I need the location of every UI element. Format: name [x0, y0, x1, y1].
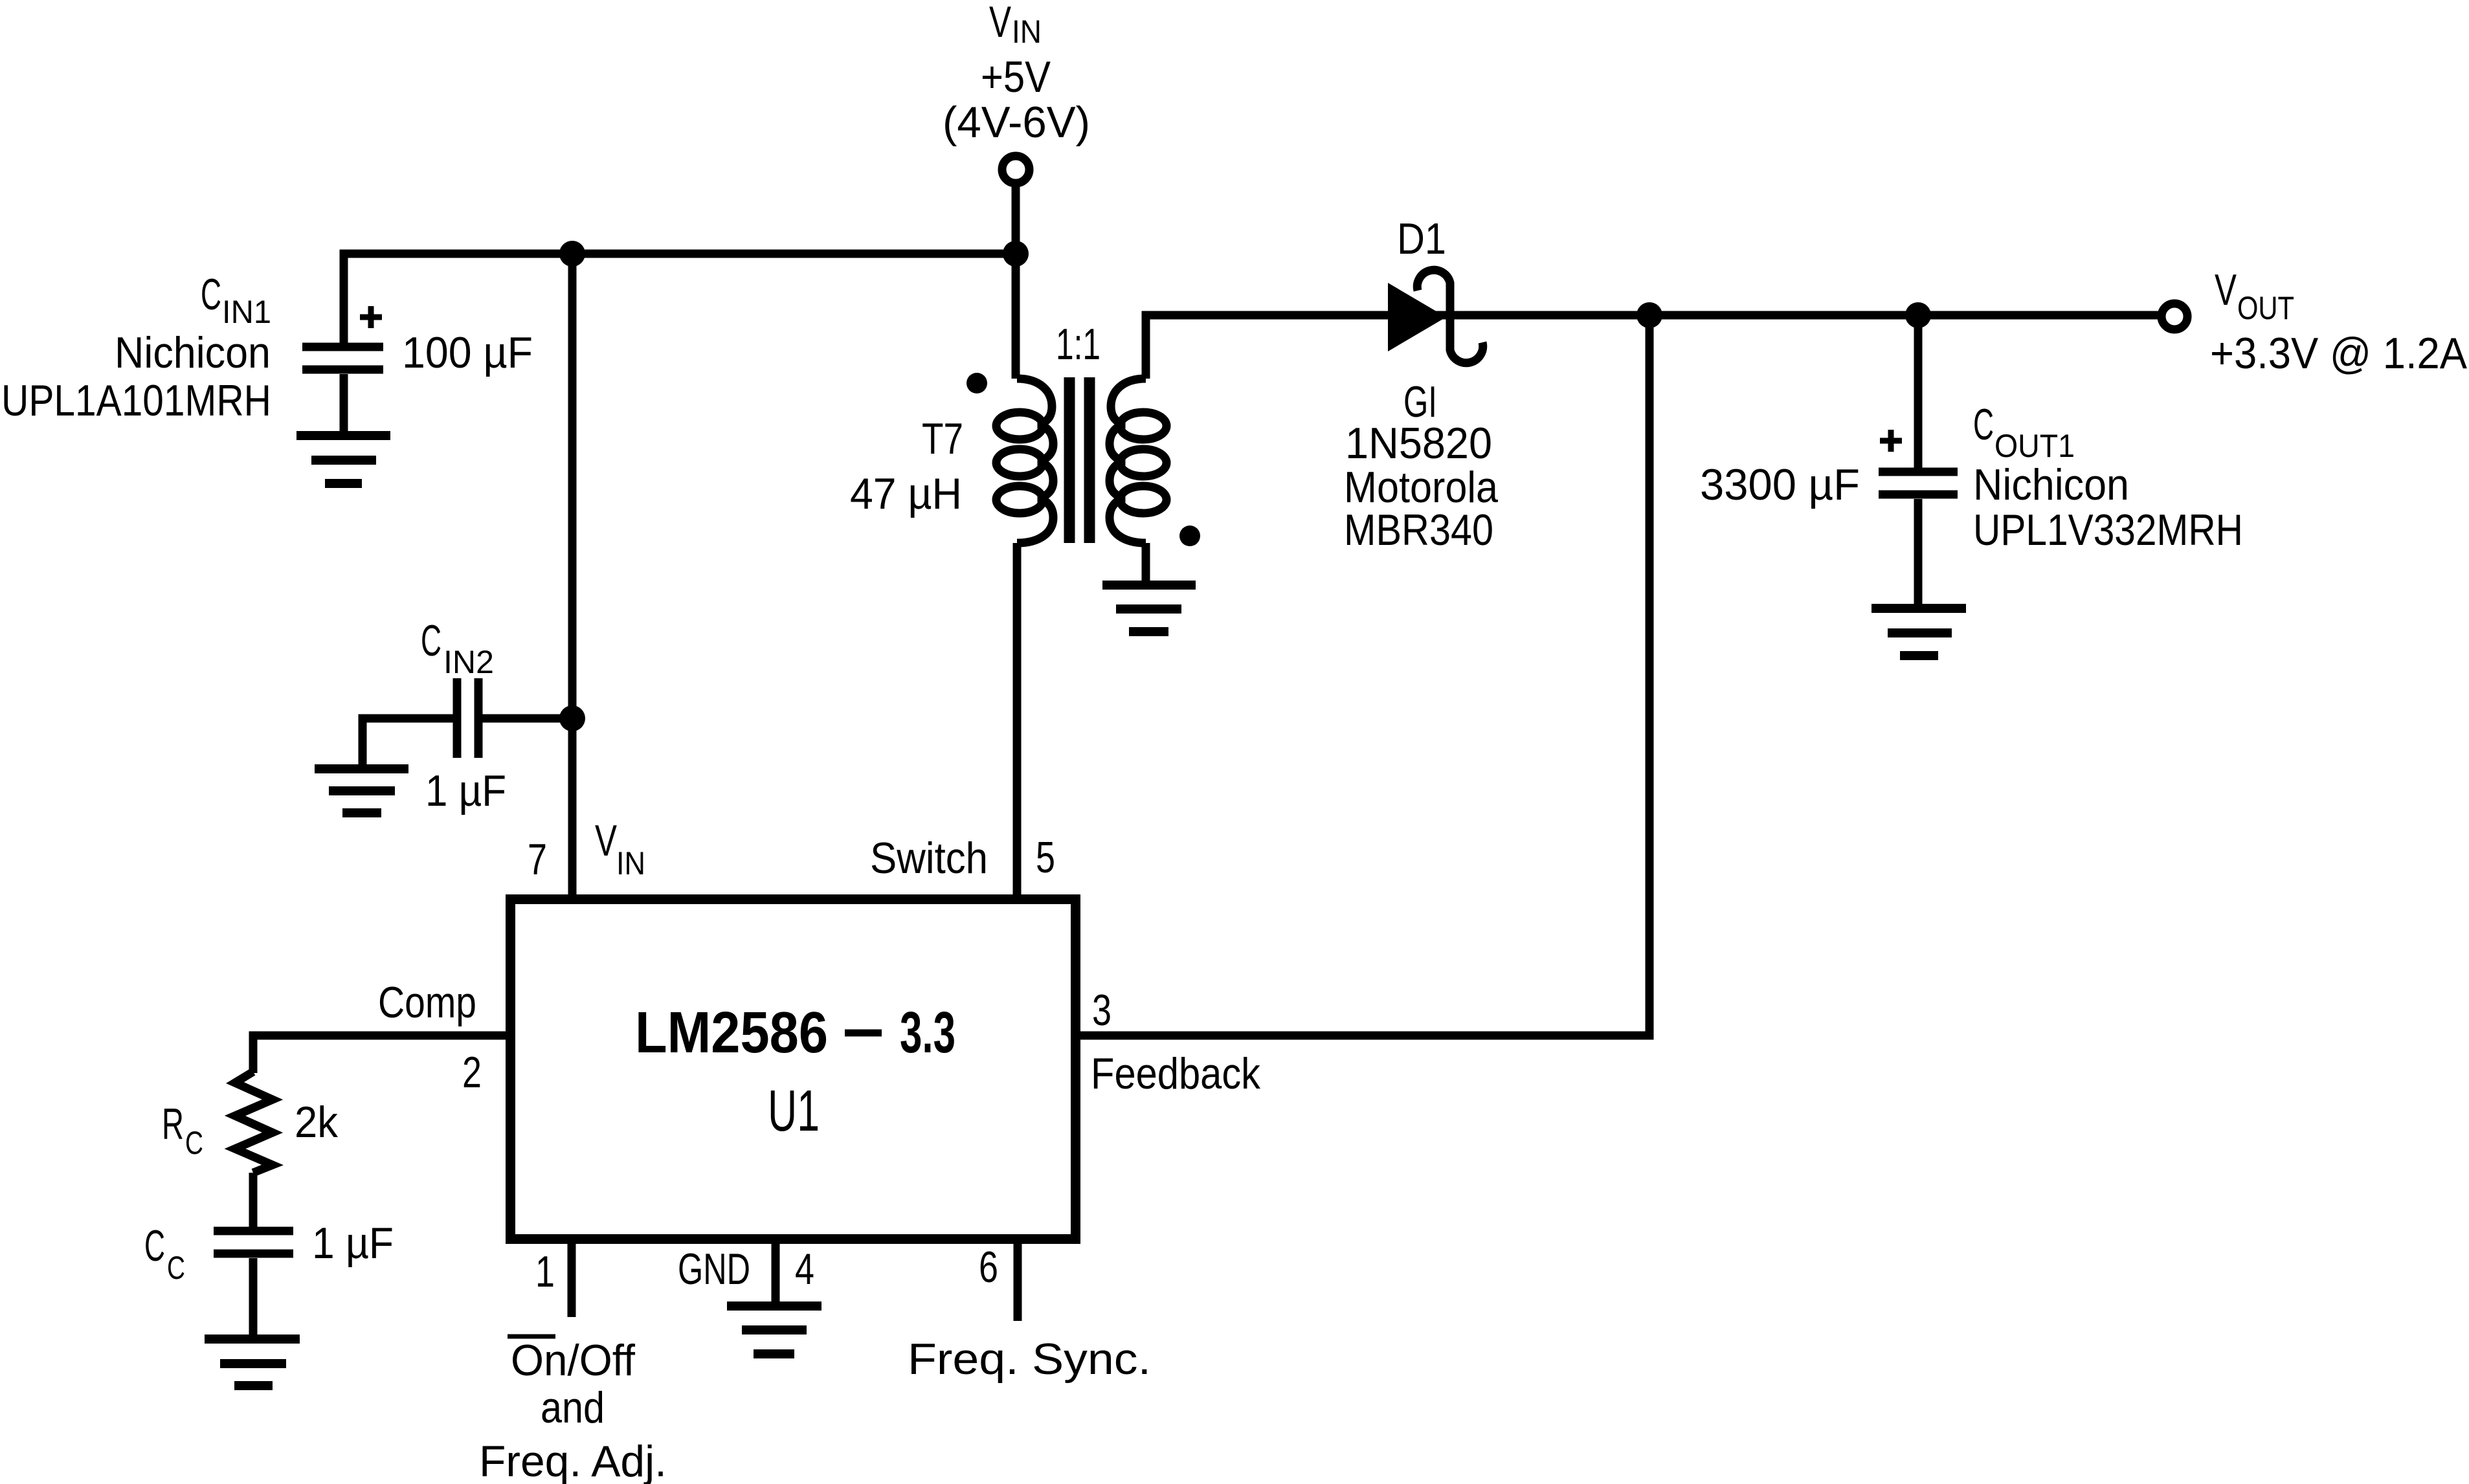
svg-text:LM2586: LM2586	[635, 1001, 828, 1065]
svg-text:U1: U1	[768, 1079, 820, 1144]
label CIN1	[1, 270, 271, 425]
svg-text:1:1: 1:1	[1056, 320, 1100, 369]
label CIN2 value 1uF	[425, 766, 506, 815]
label COUT1	[1973, 400, 2243, 555]
wire VIN vertical to pin 7	[568, 254, 577, 899]
svg-text:Freq. Adj.: Freq. Adj.	[479, 1437, 667, 1484]
label pin 2 Comp	[378, 978, 482, 1097]
wire RC to CC	[249, 1173, 258, 1227]
svg-text:V: V	[989, 0, 1011, 47]
label 47uH	[850, 469, 962, 518]
ground COUT1	[1871, 608, 1966, 656]
svg-text:C: C	[144, 1221, 165, 1270]
label CIN2	[421, 616, 494, 680]
wire secondary bottom to ground	[1142, 543, 1150, 581]
label pin 1	[535, 1247, 555, 1296]
svg-text:OUT1: OUT1	[1994, 428, 2075, 464]
svg-text:C: C	[1973, 400, 1994, 449]
label RC value 2k	[295, 1098, 339, 1147]
transformer phasing dot primary	[966, 373, 987, 393]
terminal VOUT	[2162, 304, 2187, 329]
svg-text:Comp: Comp	[378, 978, 476, 1027]
svg-text:IN: IN	[616, 845, 645, 881]
capacitor CIN1	[302, 250, 383, 432]
svg-text:3: 3	[1092, 986, 1112, 1035]
svg-text:C: C	[167, 1250, 185, 1286]
svg-text:OUT: OUT	[2237, 290, 2294, 326]
svg-text:IN1: IN1	[222, 294, 271, 330]
svg-text:3.3: 3.3	[900, 1001, 955, 1065]
label COUT1 value 3300uF	[1700, 460, 1860, 509]
label pin 5 Switch	[870, 833, 1055, 883]
svg-text:100 µF: 100 µF	[402, 328, 533, 377]
label pin 7 VIN	[528, 816, 645, 884]
label pin 1 On/Off overline	[508, 1334, 555, 1339]
label pin 6 Freq. Sync.	[908, 1243, 1151, 1384]
transformer phasing dot secondary	[1179, 526, 1200, 546]
svg-text:6: 6	[979, 1243, 998, 1292]
node output junction COUT1	[1905, 302, 1931, 328]
svg-text:1N5820: 1N5820	[1345, 419, 1492, 468]
svg-text:1 µF: 1 µF	[312, 1219, 394, 1268]
svg-text:3300 µF: 3300 µF	[1700, 460, 1860, 509]
svg-text:4: 4	[795, 1245, 814, 1294]
capacitor CIN2	[363, 678, 572, 765]
svg-text:V: V	[595, 816, 617, 865]
ground CC	[205, 1339, 300, 1386]
svg-text:+3.3V @ 1.2A: +3.3V @ 1.2A	[2210, 329, 2468, 378]
label pin 3 Feedback	[1091, 986, 1261, 1098]
svg-text:IN: IN	[1012, 14, 1042, 50]
op-amp U1 LM2586 box	[511, 900, 1076, 1239]
svg-text:47 µH: 47 µH	[850, 469, 962, 518]
label U1 LM2586-3.3	[635, 1001, 955, 1144]
svg-text:5: 5	[1036, 833, 1055, 882]
svg-text:+5V: +5V	[981, 52, 1051, 102]
resistor RC	[235, 1072, 273, 1173]
svg-text:2: 2	[462, 1048, 482, 1097]
svg-text:Feedback: Feedback	[1091, 1049, 1261, 1098]
transformer T7 primary winding	[996, 379, 1053, 543]
label RC	[162, 1100, 203, 1161]
label T7	[922, 414, 963, 463]
label CC	[144, 1221, 185, 1286]
node CIN2 junction	[559, 705, 585, 731]
svg-text:1: 1	[535, 1247, 555, 1296]
wire pin 4 GND stub	[772, 1244, 780, 1301]
wire pin 6 stub	[1014, 1244, 1022, 1321]
transformer T7 secondary winding	[1110, 379, 1167, 543]
svg-text:UPL1A101MRH: UPL1A101MRH	[1, 376, 271, 425]
node VIN junction at terminal	[1003, 241, 1029, 267]
label pin 1 On/Off and Freq. Adj.	[479, 1336, 667, 1484]
wire top rail VIN	[340, 250, 1016, 258]
svg-text:UPL1V332MRH: UPL1V332MRH	[1973, 505, 2243, 555]
wire secondary top to diode and output	[1146, 315, 2160, 379]
svg-text:C: C	[201, 270, 221, 319]
capacitor COUT1	[1879, 315, 1958, 604]
label CC value 1uF	[312, 1219, 394, 1268]
ground U1 GND	[727, 1306, 821, 1354]
label VIN top	[943, 0, 1090, 147]
wire pin 1 stub	[568, 1244, 576, 1317]
svg-text:D1: D1	[1397, 214, 1446, 263]
svg-text:Freq. Sync.: Freq. Sync.	[908, 1334, 1151, 1384]
svg-text:Motorola: Motorola	[1344, 463, 1498, 512]
wire transformer primary to pin 5	[1013, 543, 1022, 899]
ground CIN1	[296, 436, 390, 483]
svg-text:MBR340: MBR340	[1344, 505, 1493, 555]
diode D1	[1388, 270, 1483, 362]
wire pin 2 comp stub	[253, 1035, 510, 1073]
svg-text:GND: GND	[678, 1245, 750, 1294]
svg-text:IN2: IN2	[443, 644, 494, 680]
label CIN1 value 100uF	[402, 328, 533, 377]
svg-text:R: R	[162, 1100, 184, 1149]
svg-text:7: 7	[528, 835, 547, 884]
svg-text:1 µF: 1 µF	[425, 766, 506, 815]
svg-text:Nichicon: Nichicon	[115, 328, 271, 377]
capacitor CC	[214, 1231, 293, 1334]
wire switch node to transformer primary	[1012, 254, 1020, 379]
label pin 4 GND	[678, 1245, 814, 1294]
label VOUT	[2210, 265, 2468, 378]
svg-text:and: and	[541, 1383, 605, 1432]
svg-text:C: C	[185, 1125, 203, 1161]
node output junction feedback	[1637, 302, 1662, 328]
label D1 part	[1344, 377, 1498, 555]
svg-text:C: C	[421, 616, 441, 665]
svg-text:V: V	[2215, 265, 2237, 315]
ground T7 secondary	[1102, 585, 1196, 632]
svg-text:(4V-6V): (4V-6V)	[943, 98, 1090, 147]
node VIN junction at CIN2 branch	[559, 241, 585, 267]
transformer T7 core	[1069, 377, 1089, 543]
svg-text:2k: 2k	[295, 1098, 339, 1147]
wire feedback vertical	[1071, 315, 1649, 1035]
svg-text:On/Off: On/Off	[511, 1336, 635, 1385]
ground CIN2	[315, 769, 408, 813]
svg-text:Switch: Switch	[870, 834, 988, 883]
terminal VIN	[1002, 156, 1029, 254]
label transformer ratio 1:1	[1056, 320, 1100, 369]
svg-text:Nichicon: Nichicon	[1973, 460, 2129, 509]
svg-text:T7: T7	[922, 414, 963, 463]
label D1	[1397, 214, 1446, 263]
